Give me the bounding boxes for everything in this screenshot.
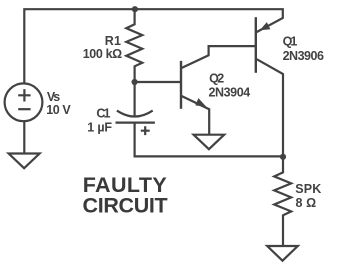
svg-text:C1: C1 (96, 106, 110, 120)
svg-text:SPK: SPK (295, 182, 321, 196)
svg-text:1 µF: 1 µF (87, 120, 112, 134)
svg-text:2N3906: 2N3906 (283, 49, 324, 63)
svg-text:2N3904: 2N3904 (209, 86, 251, 100)
svg-text:8 Ω: 8 Ω (296, 196, 317, 210)
svg-text:Q1: Q1 (283, 34, 298, 48)
svg-text:Vs: Vs (47, 90, 60, 104)
svg-text:CIRCUIT: CIRCUIT (83, 194, 168, 218)
svg-text:10 V: 10 V (46, 103, 71, 117)
svg-text:Q2: Q2 (209, 71, 224, 85)
svg-text:100 kΩ: 100 kΩ (83, 47, 123, 61)
